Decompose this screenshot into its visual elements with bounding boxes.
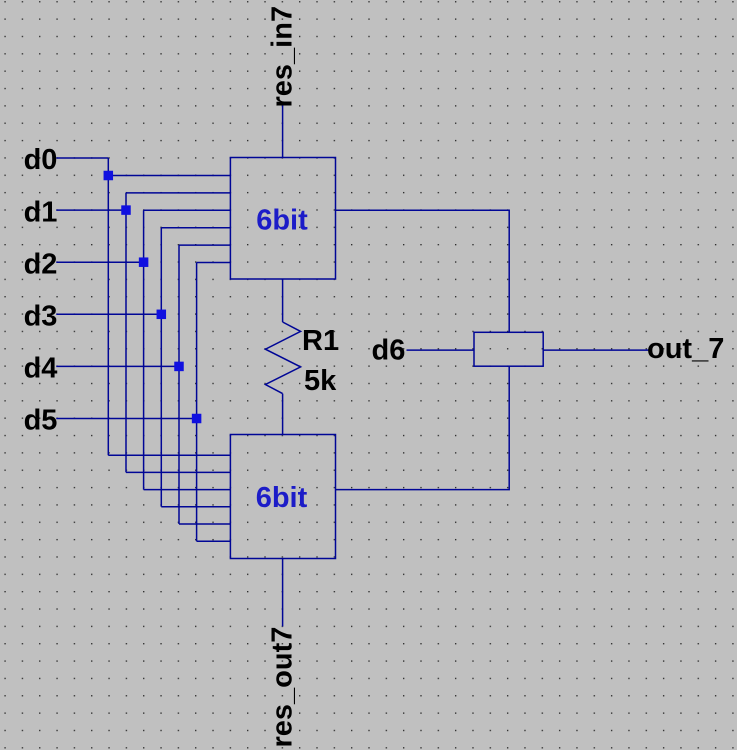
junction d5 bbox=[192, 414, 202, 424]
wire d2 to lower pin 3 bbox=[144, 489, 231, 491]
wire d1 to lower pin 2 bbox=[126, 471, 230, 473]
wire d3 tap to upper pin 4 bbox=[161, 227, 230, 229]
component X1 box bbox=[474, 332, 543, 366]
junction d1 bbox=[121, 205, 131, 215]
wire d4 vertical bus bbox=[178, 245, 180, 524]
wire d1 tap to upper pin 2 bbox=[126, 192, 230, 194]
wire res_in7 bbox=[282, 105, 284, 158]
wire d3 to lower pin 4 bbox=[161, 506, 230, 508]
wire res_out7 bbox=[282, 559, 284, 627]
wire d5 to lower pin 6 bbox=[197, 540, 231, 542]
svg-text:6bit: 6bit bbox=[256, 205, 308, 237]
wire box to lower block output bbox=[336, 366, 510, 489]
wire d1 horizontal bbox=[56, 209, 126, 211]
wire d4 tap to upper pin 5 bbox=[179, 244, 230, 246]
wire d0 vertical bus bbox=[107, 158, 109, 455]
svg-text:d4: d4 bbox=[24, 353, 58, 385]
svg-text:out_7: out_7 bbox=[647, 333, 724, 365]
svg-text:6bit: 6bit bbox=[256, 482, 308, 514]
resistor R1 zigzag bbox=[265, 322, 300, 394]
wire d0 to lower pin 1 bbox=[108, 454, 230, 456]
svg-text:d3: d3 bbox=[24, 301, 58, 333]
wire d0 tap to upper pin 1 bbox=[108, 175, 230, 177]
svg-text:R1: R1 bbox=[302, 325, 339, 357]
wire out_7 bbox=[543, 349, 648, 351]
wire d2 horizontal bbox=[56, 261, 143, 263]
junction d4 bbox=[174, 362, 184, 372]
junction d0 bbox=[104, 171, 114, 181]
block U1 6bit upper bbox=[230, 158, 335, 280]
svg-text:res_in7: res_in7 bbox=[267, 6, 299, 108]
svg-text:d6: d6 bbox=[372, 335, 406, 367]
junction d2 bbox=[139, 257, 149, 267]
svg-text:d5: d5 bbox=[24, 405, 58, 437]
wire resistor bottom lead bbox=[282, 394, 284, 435]
wire d5 tap to upper pin 6 bbox=[197, 262, 231, 264]
wire d2 tap to upper pin 3 bbox=[144, 209, 231, 211]
block U2 6bit lower bbox=[230, 435, 335, 559]
wire d4 to lower pin 5 bbox=[179, 523, 230, 525]
junction d3 bbox=[157, 310, 167, 320]
wire d4 horizontal bbox=[56, 365, 179, 367]
svg-text:d0: d0 bbox=[24, 144, 58, 176]
wire d5 vertical bus bbox=[196, 263, 198, 542]
svg-text:d2: d2 bbox=[24, 248, 58, 280]
wire resistor top lead bbox=[282, 279, 284, 322]
wire d5 horizontal bbox=[56, 418, 196, 420]
svg-text:d1: d1 bbox=[24, 196, 58, 228]
svg-text:res_out7: res_out7 bbox=[267, 627, 299, 748]
wire upper block output bbox=[336, 210, 510, 332]
wire d3 horizontal bbox=[56, 313, 161, 315]
wire d2 vertical bus bbox=[143, 210, 145, 489]
svg-text:5k: 5k bbox=[304, 365, 337, 397]
wire d0 horizontal bbox=[56, 157, 108, 159]
wire d6 bbox=[407, 349, 475, 351]
wire d1 vertical bus bbox=[125, 193, 127, 473]
wire d3 vertical bus bbox=[160, 228, 162, 507]
